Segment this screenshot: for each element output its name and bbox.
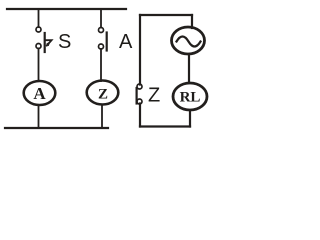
switch S terminal (top pin) bbox=[36, 27, 41, 32]
jack Z terminal (bottom pin) bbox=[137, 99, 142, 104]
switch A blade bbox=[106, 33, 108, 51]
svg-text:S: S bbox=[58, 31, 71, 53]
jack Z blade bbox=[136, 88, 138, 104]
wire: branch 2 from top bus to switch A bbox=[100, 9, 102, 28]
element Z (circle) bbox=[87, 81, 119, 105]
wire: right loop left side lower bbox=[139, 104, 141, 127]
wire: right loop left side upper bbox=[139, 15, 141, 85]
wire: left circuit bottom bus bbox=[5, 127, 108, 129]
wire: ammeter A to bottom bus bbox=[38, 105, 40, 128]
switch A terminal (bottom pin) bbox=[99, 44, 104, 49]
switch S blade bbox=[44, 33, 46, 52]
wire: left circuit top bus bbox=[7, 8, 126, 10]
wire: right loop bottom bbox=[140, 125, 190, 127]
switch S terminal (bottom pin) bbox=[36, 44, 41, 49]
svg-text:Z: Z bbox=[98, 87, 108, 103]
wire: branch 1 from top bus to switch S bbox=[38, 9, 40, 27]
wire: stub to AC source top bbox=[191, 15, 193, 28]
wire: RL bottom to loop bottom bbox=[189, 111, 191, 127]
svg-text:A: A bbox=[33, 84, 46, 103]
switch A terminal (top pin) bbox=[99, 28, 104, 33]
svg-text:Z: Z bbox=[148, 85, 160, 107]
wire: AC source to RL bbox=[188, 55, 190, 84]
wire: switch S to ammeter A bbox=[38, 49, 40, 82]
AC source bbox=[172, 27, 205, 54]
wire: switch A to element Z bbox=[100, 49, 102, 81]
ammeter A bbox=[24, 81, 56, 105]
svg-text:RL: RL bbox=[180, 90, 201, 106]
switch S blade arrow bbox=[45, 40, 51, 45]
load RL bbox=[173, 83, 207, 110]
svg-text:A: A bbox=[119, 31, 133, 53]
jack Z terminal (top pin) bbox=[137, 84, 142, 89]
wire: element Z to bottom bus bbox=[101, 105, 103, 129]
wire: right loop top bbox=[140, 14, 192, 16]
AC source sine wave bbox=[177, 37, 201, 47]
